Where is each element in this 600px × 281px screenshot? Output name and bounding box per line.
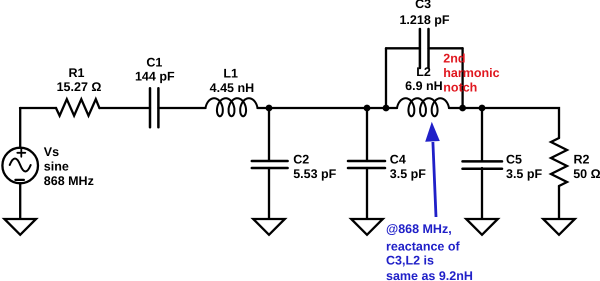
resistor R1 — [56, 99, 99, 116]
wire tank right leg — [461, 48, 463, 108]
inductor L2 — [397, 98, 449, 116]
svg-text:Vs: Vs — [44, 145, 59, 159]
junction node tank left — [383, 105, 390, 112]
svg-text:3.5 pF: 3.5 pF — [390, 167, 426, 181]
svg-text:144 pF: 144 pF — [135, 70, 175, 84]
svg-text:R2: R2 — [574, 153, 590, 167]
svg-text:C4: C4 — [390, 153, 406, 167]
svg-text:C3,L2 is: C3,L2 is — [386, 254, 434, 268]
junction node tank right — [459, 105, 466, 112]
wire C4 upper — [366, 108, 368, 161]
junction node after L1 — [266, 105, 273, 112]
capacitor C4 — [348, 161, 385, 168]
wire L2 to R2 corner — [449, 108, 559, 138]
svg-text:@868 MHz,: @868 MHz, — [386, 222, 452, 236]
junction node C5 tap — [479, 105, 486, 112]
junction node C4 tap — [364, 105, 371, 112]
svg-text:R1: R1 — [69, 66, 85, 80]
svg-text:868 MHz: 868 MHz — [44, 174, 94, 188]
svg-text:6.9 nH: 6.9 nH — [405, 79, 443, 93]
capacitor C3 — [420, 29, 429, 68]
capacitor C5 — [463, 161, 503, 168]
capacitor C2 — [252, 161, 288, 168]
svg-text:C5: C5 — [506, 153, 522, 167]
annotation @868 MHz reactance note (blue) — [386, 222, 473, 281]
wire R2 to ground — [558, 186, 560, 219]
ground C4 — [351, 219, 383, 235]
wire C4 lower — [366, 168, 368, 219]
annotation 2nd harmonic notch — [443, 52, 499, 95]
wire tank top rail right — [429, 47, 463, 49]
svg-text:L2: L2 — [416, 65, 431, 79]
annotation arrow (blue) pointing at L2 — [425, 122, 440, 217]
svg-text:2nd: 2nd — [443, 52, 465, 66]
wire C2 lower — [268, 168, 270, 219]
wire main line to R1 — [20, 107, 56, 109]
svg-text:reactance of: reactance of — [386, 239, 460, 253]
svg-text:15.27 Ω: 15.27 Ω — [57, 80, 102, 94]
svg-text:notch: notch — [443, 81, 477, 95]
voltage source Vs — [2, 148, 38, 184]
ground R2 — [543, 219, 575, 235]
inductor L1 — [206, 98, 258, 116]
ground C5 — [466, 219, 498, 235]
svg-text:C3: C3 — [415, 0, 431, 11]
wire R1 to C1 — [99, 107, 150, 109]
svg-text:L1: L1 — [223, 67, 238, 81]
wire L1 to L2 — [258, 107, 398, 109]
svg-text:5.53 pF: 5.53 pF — [293, 167, 336, 181]
wire C5 lower — [481, 168, 483, 219]
wire Vs bottom to ground — [19, 183, 21, 219]
svg-text:harmonic: harmonic — [443, 66, 499, 80]
wire Vs top to main line — [19, 108, 21, 148]
svg-text:1.218 pF: 1.218 pF — [399, 13, 449, 27]
svg-text:C1: C1 — [146, 56, 162, 70]
ground Vs — [4, 219, 36, 235]
svg-text:50 Ω: 50 Ω — [573, 167, 600, 181]
svg-text:3.5 pF: 3.5 pF — [506, 167, 542, 181]
wire C1 to L1 — [158, 107, 205, 109]
wire tank top rail left — [386, 47, 420, 49]
wire C2 upper — [268, 108, 270, 161]
resistor R2 — [551, 138, 567, 186]
svg-text:C2: C2 — [293, 153, 309, 167]
wire C5 upper — [481, 108, 483, 161]
capacitor C1 — [150, 88, 158, 127]
wire tank left leg — [385, 48, 387, 108]
svg-text:same as 9.2nH: same as 9.2nH — [386, 269, 473, 281]
svg-text:4.45 nH: 4.45 nH — [210, 81, 254, 95]
ground C2 — [253, 219, 285, 235]
svg-text:sine: sine — [44, 160, 69, 174]
